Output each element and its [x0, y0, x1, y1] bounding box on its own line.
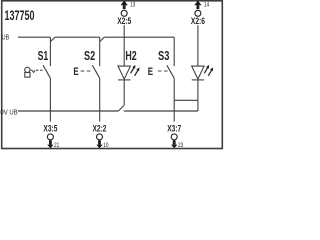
terminal X2:6 [191, 1, 205, 26]
svg-text:X2:5: X2:5 [117, 16, 131, 26]
svg-text:S2: S2 [84, 49, 95, 63]
terminal X2:2 [93, 123, 107, 148]
svg-text:E: E [73, 66, 79, 78]
drawing border frame [2, 1, 223, 149]
wire S2 upper lead [99, 37, 101, 66]
wire H2 to 0V bus [123, 80, 125, 106]
svg-text:14: 14 [204, 3, 210, 9]
node junction S1 branch on UB bus [50, 37, 55, 41]
svg-text:137750: 137750 [5, 8, 35, 23]
lamp right (LED) [192, 65, 213, 80]
wire S2 lower lead to X2:2 [99, 78, 101, 121]
switch S3 (NO contact) [167, 37, 174, 121]
svg-text:23: 23 [178, 143, 184, 149]
wire X2:6 to lamp [197, 25, 199, 66]
contact arm S3 [167, 65, 174, 78]
contact arm S2 [92, 65, 99, 78]
svg-text:S3: S3 [158, 49, 169, 63]
wire UB bus right segment to S3 corner [104, 36, 174, 38]
svg-text:X2:6: X2:6 [191, 16, 205, 26]
svg-text:13: 13 [130, 3, 136, 9]
svg-text:UB: UB [2, 35, 10, 42]
actuator dashed link of S3 [158, 70, 168, 72]
wire UB bus left segment [18, 36, 50, 38]
node junction H2 branch on 0V bus [118, 106, 124, 111]
svg-text:H2: H2 [125, 49, 136, 63]
svg-text:0V UB: 0V UB [0, 110, 17, 117]
pushbutton actuator of S1 [25, 67, 43, 77]
wire 0V bus right segment [124, 110, 198, 112]
wire UB bus middle segment [55, 36, 100, 38]
wire S1 lower lead to X3:5 [49, 78, 51, 121]
wire link S3 to lamp branch [174, 99, 198, 101]
svg-text:E: E [148, 66, 154, 78]
terminal X2:5 [117, 1, 131, 26]
wire lamp to 0V bus corner [197, 80, 199, 111]
terminal X3:7 [167, 123, 181, 148]
lamp H2 (LED) [118, 65, 139, 80]
svg-text:X3:7: X3:7 [167, 123, 181, 133]
switch S1 (NO contact) [43, 37, 50, 121]
switch S2 (NO contact) [92, 37, 99, 121]
svg-text:S1: S1 [38, 49, 49, 63]
wire 0V bus left segment [18, 110, 118, 112]
actuator dashed link of S2 [81, 70, 91, 72]
wire S3 lower lead to X3:7 [173, 78, 175, 121]
svg-text:10: 10 [103, 143, 109, 149]
wire S1 upper lead [49, 37, 51, 66]
svg-text:21: 21 [54, 143, 60, 149]
svg-text:X2:2: X2:2 [93, 123, 107, 133]
node junction S2 branch on UB bus [100, 37, 105, 41]
terminal X3:5 [43, 123, 57, 148]
contact arm S1 [43, 65, 50, 78]
svg-text:X3:5: X3:5 [43, 123, 57, 133]
wire S3 upper lead [173, 37, 175, 66]
wire X2:5 to H2 [123, 25, 125, 66]
